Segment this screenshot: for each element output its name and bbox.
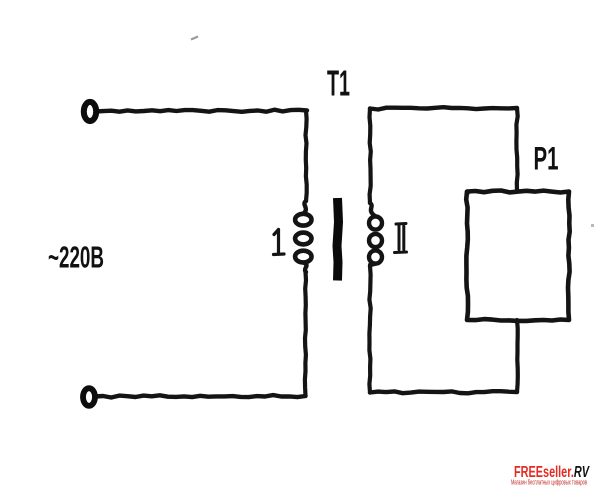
svg-text:Магазин бесплатных цифровых то: Магазин бесплатных цифровых товаров (511, 479, 587, 487)
svg-text:FREEseller.RV: FREEseller.RV (514, 464, 590, 481)
svg-text:~220В: ~220В (48, 240, 104, 275)
svg-text:T1: T1 (327, 63, 350, 104)
svg-text:P1: P1 (534, 141, 559, 177)
